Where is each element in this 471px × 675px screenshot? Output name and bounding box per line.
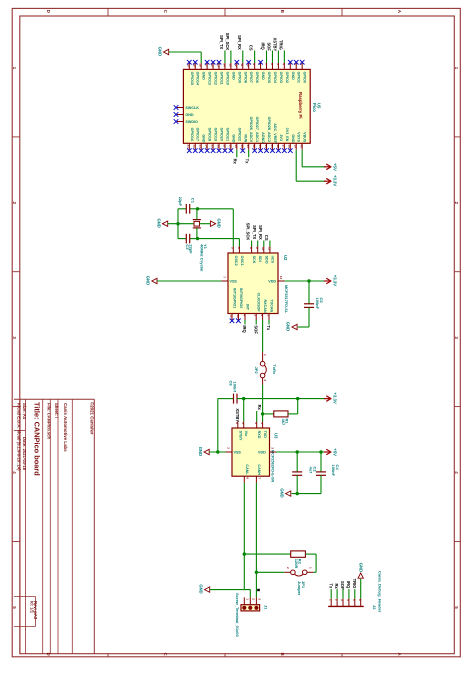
svg-text:GPIO11: GPIO11	[220, 72, 224, 85]
resistor R1 4k7	[263, 413, 274, 415]
junction crystal/C3 node	[196, 237, 199, 240]
svg-text:GPIO5: GPIO5	[267, 72, 271, 83]
svg-text:GND: GND	[198, 584, 203, 593]
svg-text:22: 22	[193, 145, 197, 149]
svg-text:SOF: SOF	[267, 42, 272, 51]
wire + net label CS	[269, 241, 271, 247]
U3 pin 4 (RXD)	[256, 422, 258, 429]
svg-text:+3.3V: +3.3V	[333, 275, 338, 286]
no-connect pico bottom pin 22	[193, 148, 198, 153]
svg-text:SPI_SCK: SPI_SCK	[246, 223, 251, 241]
svg-text:GPIO27_ADC1: GPIO27_ADC1	[255, 117, 259, 142]
power +3.3V (pico)	[324, 180, 330, 182]
svg-text:39: 39	[294, 145, 298, 149]
svg-text:Canis_Debug_Header: Canis_Debug_Header	[378, 571, 383, 613]
pico pin 39 (VSYS)	[295, 143, 297, 150]
svg-text:25: 25	[210, 145, 214, 149]
svg-text:©2021 Canis/wr: ©2021 Canis/wr	[90, 402, 95, 435]
svg-text:U3: U3	[273, 433, 278, 439]
svg-text:J1: J1	[264, 605, 269, 610]
svg-text:CANH: CANH	[257, 464, 261, 475]
svg-text:GPIO21: GPIO21	[225, 128, 229, 141]
svg-text:GPIO4: GPIO4	[273, 72, 277, 84]
wire JP2 to U3 TXD (crosses 3.3V rail)	[262, 385, 264, 414]
wire + net label SPI_TX	[257, 241, 259, 247]
svg-text:RUN: RUN	[243, 134, 247, 142]
no-connect pico bottom pin 21	[187, 148, 192, 153]
svg-text:4k7: 4k7	[281, 419, 286, 426]
svg-text:Date: 2021-03-18: Date: 2021-03-18	[22, 437, 27, 471]
no-connect pico top pin 20	[187, 60, 192, 65]
svg-text:GND: GND	[291, 72, 295, 81]
svg-text:TRIG: TRIG	[352, 579, 357, 589]
svg-text:+5V: +5V	[333, 448, 338, 456]
svg-text:SOF: SOF	[253, 325, 258, 334]
svg-text:30: 30	[240, 145, 244, 149]
title block	[14, 398, 94, 400]
svg-text:GPIO18: GPIO18	[208, 128, 212, 141]
pico pin 31 (GPIO26_ADC0)	[248, 143, 250, 150]
header pin 2	[336, 599, 338, 607]
svg-text:CS: CS	[264, 235, 269, 241]
svg-text:+5V: +5V	[333, 163, 338, 171]
svg-text:GND: GND	[202, 134, 206, 143]
junction crystal/C1 node	[196, 207, 199, 210]
svg-text:JP2: JP2	[254, 367, 259, 375]
svg-text:29: 29	[234, 145, 238, 149]
svg-text:24: 24	[205, 145, 209, 149]
svg-text:VDD: VDD	[258, 451, 266, 455]
svg-text:100nf: 100nf	[232, 382, 237, 393]
wire + label IRQ	[244, 320, 246, 324]
svg-text:CLKO/SOF: CLKO/SOF	[257, 293, 261, 313]
no-connect pico bottom pin 37	[282, 148, 287, 153]
svg-text:36: 36	[276, 145, 280, 149]
no-connect pico top pin 16	[211, 60, 216, 65]
svg-text:10: 10	[261, 247, 265, 251]
capacitor C3 22pF	[178, 238, 186, 240]
svg-text:100nF: 100nF	[331, 465, 336, 477]
svg-text:GPIO26_ADC0: GPIO26_ADC0	[249, 117, 253, 142]
svg-text:SWCLK: SWCLK	[185, 106, 199, 110]
jumper JP1 termination	[313, 571, 316, 573]
svg-text:SPI_TX: SPI_TX	[252, 225, 257, 239]
svg-text:GND: GND	[185, 113, 194, 117]
pico pin 7 (GPIO5)	[266, 63, 268, 69]
U2 pin 3 (CLKO/SOF)	[255, 314, 257, 321]
pico pin 30 (RUN)	[242, 143, 244, 150]
wire + label SPI_TX	[224, 51, 226, 64]
power +5V (pico)	[324, 166, 330, 168]
U2 pin 5 (OSC2)	[232, 247, 234, 254]
svg-text:40: 40	[300, 145, 304, 149]
svg-text:37: 37	[282, 145, 286, 149]
capacitor C4 100nF	[320, 452, 322, 472]
pico pin 10 (GPIO7)	[248, 63, 250, 69]
IC U2 MCP2517FD body	[228, 253, 278, 314]
svg-text:28: 28	[228, 145, 232, 149]
power flag GND (C5)	[292, 324, 297, 329]
svg-text:26: 26	[216, 145, 220, 149]
U2 VSS pin + GND	[222, 280, 229, 282]
no-connect pico bottom pin 34	[264, 148, 269, 153]
svg-text:12: 12	[229, 315, 233, 319]
no-connect pico top pin 12	[235, 60, 240, 65]
junction C8/VSS gnd	[216, 450, 219, 453]
pico debug pin GND + no-connect	[177, 114, 183, 116]
svg-text:GND: GND	[198, 447, 203, 456]
svg-text:TRIG: TRIG	[278, 40, 283, 50]
svg-text:23: 23	[199, 145, 203, 149]
U2 pin 6 (OSC1)	[238, 247, 240, 254]
svg-text:GND: GND	[146, 276, 151, 285]
svg-text:VSS: VSS	[234, 451, 242, 455]
pico pin 6 (GPIO4)	[271, 63, 273, 69]
power +3.3V (rail)	[324, 398, 330, 400]
svg-text:SDO: SDO	[264, 256, 268, 264]
svg-text:Size: A4: Size: A4	[22, 403, 27, 420]
svg-text:22pF: 22pF	[189, 244, 194, 254]
power +3.3V (U2)	[324, 280, 330, 282]
power +5V (U3)	[324, 451, 330, 453]
no-connect pico bottom pin 23	[199, 148, 204, 153]
header pin 6	[360, 599, 362, 607]
no-connect pico top pin 8	[258, 60, 263, 65]
svg-text:AGND: AGND	[261, 132, 265, 143]
svg-text:INT0/GPIO0: INT0/GPIO0	[239, 288, 243, 308]
wire + label XSTBY	[277, 51, 279, 64]
svg-text:120R: 120R	[294, 559, 299, 569]
resistor R2 120R	[244, 553, 290, 555]
svg-text:TxRx: TxRx	[272, 364, 277, 375]
wire VBUS to +5V	[301, 150, 303, 167]
wire + net label SPI_RX	[263, 241, 265, 247]
svg-text:+3.3V: +3.3V	[333, 392, 338, 403]
pico pin 5 (GPIO3)	[277, 63, 279, 69]
wire CANH down	[255, 483, 257, 598]
svg-text:3V3: 3V3	[279, 134, 283, 141]
svg-text:33: 33	[258, 145, 262, 149]
svg-text:GPIO7: GPIO7	[249, 72, 253, 83]
svg-text:File: CANPico.sch: File: CANPico.sch	[47, 403, 52, 440]
svg-text:SOF: SOF	[340, 581, 345, 590]
gnd wire to terminal mid pin	[210, 589, 251, 591]
no-connect pico top pin 17	[205, 60, 210, 65]
svg-text:Rx: Rx	[232, 159, 237, 165]
svg-text:32: 32	[252, 145, 256, 149]
svg-text:OSC1: OSC1	[240, 256, 244, 266]
gnd wire below caps	[292, 493, 321, 495]
pico pin 25 (GPIO19)	[212, 143, 214, 150]
wire OSC2 net	[198, 208, 234, 210]
wire CANL down	[243, 483, 245, 590]
U3 pin 5 (Vio)	[243, 422, 245, 429]
svg-text:40MHz Crystal: 40MHz Crystal	[199, 244, 204, 271]
Raspberry Pi Pico U5 body	[183, 69, 310, 143]
svg-text:GND: GND	[286, 322, 291, 331]
svg-text:GND: GND	[231, 72, 235, 81]
svg-text:21: 21	[187, 145, 191, 149]
border zone ticks and labels	[107, 8, 109, 16]
svg-text:14: 14	[222, 63, 226, 67]
svg-text:TXCAN: TXCAN	[270, 300, 274, 313]
svg-text:IRQ: IRQ	[261, 42, 266, 50]
U3 VDD to +5V	[270, 451, 277, 453]
svg-text:27: 27	[222, 145, 226, 149]
svg-text:B: B	[280, 653, 285, 656]
wire + label Tx below pico	[248, 150, 250, 158]
wire RXCAN down to JP2	[262, 320, 264, 352]
power flag GND (header, up)	[358, 573, 363, 578]
svg-text:VDD: VDD	[268, 280, 276, 284]
svg-text:GPIO3: GPIO3	[279, 72, 283, 83]
U3 pin 8 (STBY)	[237, 422, 239, 429]
capacitor C5 100nF	[308, 281, 310, 304]
pico pin 23 (GND)	[200, 143, 202, 150]
svg-text:nCS: nCS	[270, 256, 274, 264]
svg-text:TXD: TXD	[263, 431, 267, 439]
junction VDD/C2	[296, 450, 299, 453]
header pin 4	[348, 599, 350, 607]
svg-text:GND: GND	[231, 134, 235, 143]
pico pin 21 (GPIO16)	[188, 143, 190, 150]
svg-text:C: C	[163, 653, 168, 656]
pico pin 4 (GPIO2)	[283, 63, 285, 69]
no-connect pico bottom pin 25	[211, 148, 216, 153]
junction rail/Vio	[242, 397, 245, 400]
pico pin 16 (GPIO12)	[212, 63, 214, 69]
no-connect pico bottom pin 24	[205, 148, 210, 153]
svg-text:MCP2517FD-SL: MCP2517FD-SL	[284, 285, 288, 314]
svg-text:Tx: Tx	[244, 159, 249, 165]
svg-text:18: 18	[199, 63, 203, 67]
pico pin 37 (3V3_EN)	[283, 143, 285, 150]
svg-text:Canis Automotive Labs: Canis Automotive Labs	[63, 403, 68, 452]
svg-text:Pico: Pico	[312, 103, 317, 112]
wire + label Rx below pico	[236, 150, 238, 158]
svg-text:Raspberry Pi: Raspberry Pi	[298, 92, 303, 119]
wire header pin6 to GND	[360, 579, 362, 599]
svg-text:GND: GND	[358, 563, 363, 572]
pico pin 28 (GND)	[230, 143, 232, 150]
no-connect pico bottom pin 33	[258, 148, 263, 153]
svg-text:SPI_SCK: SPI_SCK	[225, 33, 230, 51]
IC U3 MCP2562FD body	[232, 428, 270, 476]
svg-text:A: A	[397, 653, 402, 656]
header pin 1	[330, 599, 332, 607]
svg-text:ADC_VREF: ADC_VREF	[273, 123, 277, 144]
svg-text:SDI: SDI	[258, 256, 262, 262]
wire JP1 to CANH	[256, 571, 284, 573]
pico pin 35 (ADC_VREF)	[271, 143, 273, 150]
svg-text:GND: GND	[157, 47, 162, 56]
svg-text:INT1/GPIO1: INT1/GPIO1	[233, 288, 237, 308]
svg-text:Jumper: Jumper	[297, 581, 302, 596]
terminal pin 2	[249, 597, 251, 604]
svg-text:SPI_RX: SPI_RX	[237, 35, 242, 50]
svg-text:CS: CS	[249, 45, 254, 51]
U3 pin 6 (CANL)	[243, 476, 245, 483]
pico pin 26 (GPIO20)	[218, 143, 220, 150]
svg-text:CANL: CANL	[245, 464, 249, 475]
wire + label Rx at U3 RXD	[256, 411, 258, 422]
svg-text:GND: GND	[202, 72, 206, 81]
wire gnd rail to crystal case	[168, 223, 194, 225]
header pin 5	[354, 599, 356, 607]
pico pin 9 (GPIO6)	[254, 63, 256, 69]
pico pin 36 (3V3)	[277, 143, 279, 150]
svg-text:Screw_Terminal_01x03: Screw_Terminal_01x03	[235, 593, 240, 638]
svg-text:GPIO9: GPIO9	[237, 72, 241, 83]
no-connect pico bottom pin 38	[288, 148, 293, 153]
U2 pin 8 (SCK)	[251, 247, 253, 254]
pico pin 24 (GPIO18)	[206, 143, 208, 150]
svg-text:31: 31	[246, 145, 250, 149]
no-connect pico bottom pin 28	[229, 148, 234, 153]
U2 pin 12 (INT1/GPIO1)	[231, 314, 233, 321]
no-connect U2 INT1	[230, 319, 235, 324]
svg-text:3V3_EN: 3V3_EN	[285, 128, 289, 142]
junction CANL/R2	[243, 552, 246, 555]
svg-text:GPIO8: GPIO8	[243, 72, 247, 83]
U2 pin 4 (INT)	[244, 314, 246, 321]
no-connect pico top pin 19	[193, 60, 198, 65]
wire + label SOF	[271, 51, 273, 64]
svg-text:34: 34	[264, 145, 268, 149]
U2 pin 10 (SDO)	[263, 247, 265, 254]
svg-text:B: B	[280, 10, 285, 13]
svg-text:XSTBY: XSTBY	[235, 408, 240, 422]
wire + label TRIG	[283, 51, 285, 64]
junction CANH/JP1	[255, 571, 258, 574]
junction caps-gnd	[176, 222, 179, 225]
wire + label SPI_RX	[242, 51, 244, 64]
U2 pin 1 (TXCAN)	[268, 314, 270, 321]
pico pin 12 (GPIO9)	[236, 63, 238, 69]
wire + net label SPI_SCK	[251, 241, 253, 247]
svg-text:OSC2: OSC2	[234, 256, 238, 266]
svg-text:Rx: Rx	[334, 583, 339, 589]
power flag GND (terminal)	[205, 587, 210, 592]
junction rail/R1	[296, 397, 299, 400]
svg-text:GPIO10: GPIO10	[225, 72, 229, 85]
svg-text:13: 13	[236, 315, 240, 319]
svg-text:J2: J2	[372, 605, 377, 610]
pico pin 38 (GND)	[289, 143, 291, 150]
svg-text:4u7: 4u7	[309, 467, 314, 475]
svg-text:SPI_TX: SPI_TX	[219, 35, 224, 49]
wire C8 gnd side down	[217, 399, 219, 452]
svg-text:GPIO2: GPIO2	[285, 72, 289, 83]
svg-text:GPIO0: GPIO0	[303, 72, 307, 83]
pico pin 32 (GPIO27_ADC1)	[254, 143, 256, 150]
U2 pin 11 (nCS)	[269, 247, 271, 254]
svg-text:35: 35	[270, 145, 274, 149]
svg-text:GND: GND	[291, 134, 295, 143]
svg-text:KiCad E.D.A. kicad (5.1.9-0-1: KiCad E.D.A. kicad (5.1.9-0-10_14)	[16, 403, 21, 471]
svg-text:GPIO14: GPIO14	[196, 72, 200, 86]
svg-text:Vio: Vio	[244, 431, 248, 437]
svg-text:GPIO28_ADC2: GPIO28_ADC2	[267, 117, 271, 142]
screw terminal J1 body	[241, 605, 260, 611]
pico pin 18 (GND)	[200, 63, 202, 69]
pico pin 19 (GPIO14)	[194, 63, 196, 69]
svg-text:Sheet: /: Sheet: /	[54, 403, 59, 419]
svg-text:RXD: RXD	[257, 431, 261, 439]
capacitor C8 100nF	[218, 398, 234, 400]
svg-text:RXCAN: RXCAN	[263, 300, 267, 313]
wire + label IRQ	[266, 51, 268, 64]
svg-text:IRQ: IRQ	[346, 581, 351, 589]
pico pin 8 (GND)	[260, 63, 262, 69]
svg-text:GPIO20: GPIO20	[220, 128, 224, 141]
svg-text:GND: GND	[279, 488, 284, 497]
junction R1/TXD net	[261, 412, 264, 415]
power flag GND left of crystal	[163, 221, 168, 226]
svg-text:14: 14	[279, 276, 283, 280]
U2 pin 13 (INT0/GPIO0)	[237, 314, 239, 321]
pico pin 2 (GPIO1)	[295, 63, 297, 69]
U2 VDD pin to +3.3V	[278, 280, 285, 282]
svg-text:GPIO13: GPIO13	[208, 72, 212, 85]
svg-text:VSS: VSS	[230, 280, 238, 284]
wire Vio down	[243, 399, 245, 422]
svg-text:XSTBY: XSTBY	[273, 38, 278, 52]
svg-text:C1: C1	[191, 198, 196, 204]
svg-text:GND: GND	[216, 219, 221, 228]
junction C2 bottom	[296, 492, 299, 495]
no-connect U2 INT0	[236, 319, 241, 324]
no-connect pico bottom pin 36	[276, 148, 281, 153]
svg-text:VSYS: VSYS	[297, 132, 301, 142]
svg-text:22pF: 22pF	[178, 197, 183, 207]
cap gnd-side rail	[177, 209, 179, 239]
pico pin 1 (GPIO0)	[301, 63, 303, 69]
svg-text:INT: INT	[246, 304, 250, 311]
power flag GND right of crystal	[210, 221, 215, 226]
no-connect pico bottom pin 26	[217, 148, 222, 153]
no-connect pico bottom pin 32	[252, 148, 257, 153]
U3 pin 7 (CANH)	[255, 476, 257, 483]
connector J2 Canis_Debug_Header	[328, 605, 364, 607]
svg-text:Tx: Tx	[266, 325, 271, 331]
U2 pin 2 (RXCAN)	[262, 314, 264, 321]
svg-text:38: 38	[288, 145, 292, 149]
svg-text:IRQ: IRQ	[242, 325, 247, 333]
capacitor C1 22pF	[178, 208, 186, 210]
svg-text:STBY: STBY	[238, 431, 242, 441]
svg-text:GPIO6: GPIO6	[255, 72, 259, 83]
pico pin 11 (GPIO8)	[242, 63, 244, 69]
svg-text:SPI_RX: SPI_RX	[258, 225, 263, 240]
crystal Y1 40MHz (GND24)	[194, 221, 200, 226]
no-connect pico top pin 10	[246, 60, 251, 65]
junction VDD/C4	[319, 450, 322, 453]
wire + label SOF	[255, 320, 257, 324]
svg-text:GND: GND	[156, 219, 161, 228]
power flag GND (caps)	[286, 491, 291, 496]
pico pin 40 (VBUS)	[301, 143, 303, 150]
no-connect pico bottom pin 30	[240, 148, 245, 153]
no-connect pico bottom pin 27	[223, 148, 228, 153]
svg-text:D: D	[46, 10, 51, 13]
svg-text:GPIO22: GPIO22	[237, 128, 241, 141]
svg-text:Title: CANPico board: Title: CANPico board	[33, 402, 42, 476]
svg-text:GPIO12: GPIO12	[214, 72, 218, 85]
pico pin 17 (GPIO13)	[206, 63, 208, 69]
wire + label CS	[254, 51, 256, 64]
svg-text:SCK: SCK	[252, 256, 256, 264]
